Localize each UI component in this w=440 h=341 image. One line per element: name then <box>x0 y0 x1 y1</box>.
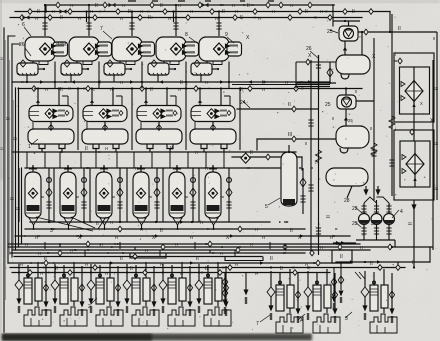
svg-text:H: H <box>115 235 118 240</box>
svg-text:H: H <box>90 9 93 14</box>
svg-text:II: II <box>148 15 151 21</box>
svg-text:II: II <box>55 266 58 272</box>
svg-text:H: H <box>305 262 308 267</box>
svg-text:H: H <box>205 166 208 171</box>
svg-text:H: H <box>35 16 38 21</box>
svg-text:H: H <box>85 262 88 267</box>
svg-text:II: II <box>196 256 199 262</box>
svg-text:II: II <box>222 9 225 15</box>
svg-text:H: H <box>140 227 143 232</box>
svg-text:II: II <box>270 256 273 262</box>
svg-text:H: H <box>320 245 323 250</box>
svg-text:II: II <box>44 256 47 262</box>
svg-text:H: H <box>220 251 223 256</box>
svg-text:H: H <box>168 16 171 21</box>
svg-text:H: H <box>100 242 103 247</box>
svg-text:II: II <box>408 222 414 225</box>
svg-text:II: II <box>398 26 401 32</box>
svg-text:H: H <box>180 271 183 276</box>
svg-text:II: II <box>95 3 98 9</box>
svg-text:II: II <box>96 221 99 227</box>
svg-text:II: II <box>434 142 440 145</box>
svg-text:II: II <box>85 146 88 152</box>
svg-text:II: II <box>371 222 377 225</box>
svg-text:II: II <box>262 80 265 86</box>
svg-text:II: II <box>250 150 253 156</box>
svg-text:II: II <box>37 9 40 15</box>
svg-text:28: 28 <box>344 198 350 204</box>
svg-text:II: II <box>6 117 12 120</box>
svg-text:H: H <box>120 80 123 85</box>
svg-text:H: H <box>250 242 253 247</box>
svg-text:H: H <box>255 227 258 232</box>
svg-text:6: 6 <box>22 22 25 28</box>
svg-text:5: 5 <box>265 204 268 210</box>
svg-text:II: II <box>160 3 163 9</box>
svg-text:7: 7 <box>256 321 259 327</box>
svg-text:H: H <box>25 242 28 247</box>
svg-text:H: H <box>175 242 178 247</box>
svg-text:3MM: 3MM <box>55 42 66 48</box>
svg-text:H: H <box>205 80 208 85</box>
svg-text:25: 25 <box>327 29 333 35</box>
svg-text:II: II <box>370 126 372 131</box>
svg-text:II: II <box>130 266 133 272</box>
svg-text:II: II <box>355 89 357 94</box>
svg-text:H: H <box>215 16 218 21</box>
svg-text:II: II <box>340 254 343 260</box>
svg-text:II: II <box>434 187 440 190</box>
svg-text:II: II <box>305 9 308 15</box>
svg-text:H: H <box>140 9 143 14</box>
svg-text:II: II <box>150 87 153 93</box>
svg-text:4: 4 <box>400 209 403 215</box>
svg-text:II: II <box>332 116 334 121</box>
svg-text:H: H <box>40 271 43 276</box>
svg-text:H: H <box>145 248 148 253</box>
svg-text:2: 2 <box>88 304 91 310</box>
svg-text:H: H <box>290 3 293 8</box>
svg-text:II: II <box>205 266 208 272</box>
svg-text:H: H <box>52 9 55 14</box>
svg-text:H: H <box>110 220 113 225</box>
svg-text:H: H <box>360 245 363 250</box>
svg-text:II: II <box>352 9 355 15</box>
svg-text:II: II <box>434 87 440 90</box>
svg-text:H: H <box>78 16 81 21</box>
svg-text:H: H <box>160 262 163 267</box>
svg-text:25: 25 <box>325 102 331 108</box>
svg-text:H: H <box>235 9 238 14</box>
svg-text:H: H <box>190 235 193 240</box>
svg-text:II: II <box>60 15 63 21</box>
svg-text:H: H <box>272 9 275 14</box>
svg-text:H: H <box>135 166 138 171</box>
svg-text:H: H <box>178 87 181 92</box>
svg-text:II: II <box>280 266 283 272</box>
svg-text:II: II <box>160 228 163 234</box>
svg-text:II: II <box>120 256 123 262</box>
svg-text:H: H <box>38 251 41 256</box>
svg-text:II: II <box>290 228 293 234</box>
svg-text:H: H <box>70 3 73 8</box>
svg-text:II: II <box>247 3 250 9</box>
svg-text:H: H <box>235 262 238 267</box>
svg-text:7: 7 <box>100 26 103 32</box>
svg-text:III: III <box>288 132 292 138</box>
svg-text:H: H <box>195 150 198 155</box>
svg-text:II: II <box>288 102 291 108</box>
svg-text:X: X <box>420 101 423 106</box>
svg-text:II: II <box>180 80 183 86</box>
svg-text:II: II <box>170 146 173 152</box>
svg-text:H: H <box>262 87 265 92</box>
svg-text:II: II <box>128 9 131 15</box>
svg-text:II: II <box>10 197 16 200</box>
svg-text:j: j <box>394 51 396 56</box>
svg-text:II: II <box>433 36 435 41</box>
svg-text:II: II <box>305 141 307 146</box>
svg-text:26: 26 <box>19 42 25 48</box>
svg-text:j: j <box>394 126 396 131</box>
svg-text:H: H <box>70 248 73 253</box>
svg-text:H: H <box>285 80 288 85</box>
svg-text:II: II <box>326 215 332 218</box>
svg-text:H: H <box>105 271 108 276</box>
svg-text:H: H <box>258 16 261 21</box>
svg-text:II: II <box>13 137 19 140</box>
svg-text:H: H <box>320 9 323 14</box>
svg-text:H: H <box>105 146 108 151</box>
svg-text:H: H <box>120 16 123 21</box>
svg-text:H: H <box>232 3 235 8</box>
svg-text:H: H <box>45 87 48 92</box>
svg-text:H: H <box>20 262 23 267</box>
svg-text:8: 8 <box>185 32 188 38</box>
svg-text:II: II <box>16 207 22 210</box>
svg-text:H: H <box>178 3 181 8</box>
svg-text:II: II <box>240 15 243 21</box>
svg-text:26: 26 <box>306 46 312 52</box>
svg-text:H: H <box>190 9 193 14</box>
svg-text:1: 1 <box>28 144 31 150</box>
svg-text:II: II <box>412 260 415 266</box>
svg-text:H: H <box>262 235 265 240</box>
svg-text:II: II <box>370 261 373 267</box>
svg-text:II: II <box>60 87 63 93</box>
